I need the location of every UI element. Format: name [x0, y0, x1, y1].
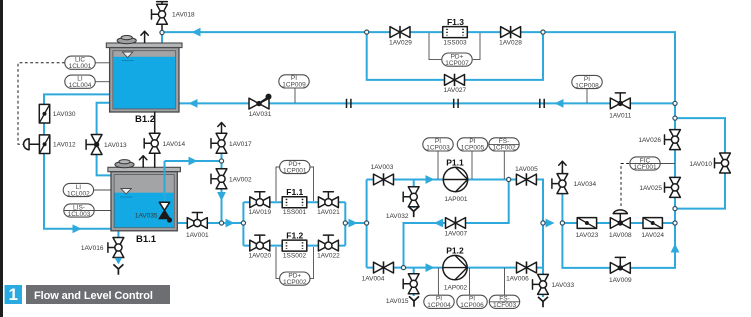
- node junction (562.4,223): [560, 221, 564, 225]
- node junction (345.3,223): [343, 221, 347, 225]
- valve 1AV023: [577, 218, 596, 229]
- svg-text:1AV030: 1AV030: [53, 111, 76, 118]
- svg-text:1AP002: 1AP002: [444, 284, 468, 291]
- wire F1.2 branch row: [243, 245, 345, 247]
- svg-text:1CL004: 1CL004: [69, 82, 92, 89]
- pump P1.2 (1AP002): [443, 255, 467, 279]
- wire F1.1 branch row: [243, 201, 345, 203]
- instrument LI 1CL004 (LI): [65, 75, 95, 89]
- drain Y below 1AV032: [409, 207, 419, 217]
- svg-text:1CL002: 1CL002: [67, 190, 90, 197]
- valve 1AV020: [250, 235, 270, 251]
- valve 1AV026: [665, 130, 681, 150]
- valve 1AV019: [250, 192, 270, 208]
- node junction (675,103.4): [673, 101, 677, 105]
- instrument PI 1CP009 (PI): [279, 75, 309, 89]
- svg-text:1CP001: 1CP001: [283, 167, 307, 174]
- wire stub B1.1 bottom to 1AV016: [117, 230, 119, 239]
- wire 1AV034 column down and 1AV009 return: [562, 194, 675, 268]
- wire stub node to B1.2 lid: [161, 33, 163, 45]
- valve 1AV029: [390, 26, 410, 38]
- flow arrow at (221.5,199.5): [217, 192, 226, 201]
- wire branch split verticals: [242, 202, 244, 245]
- valve 1AV015: [403, 274, 419, 294]
- svg-text:1AV024: 1AV024: [641, 232, 664, 239]
- valve 1AV008 with diaphragm actuator: [610, 210, 630, 229]
- valve 1AV035 (inlet valve inside tank B1.1): [159, 202, 172, 222]
- leader LI 1CL004 to tank wall: [95, 81, 111, 83]
- flow arrow at (433,267.6): [426, 263, 435, 272]
- svg-text:F1.3: F1.3: [447, 17, 464, 27]
- leader PI 1CP008 to pipe: [586, 89, 588, 103]
- svg-text:1CP007: 1CP007: [445, 60, 469, 67]
- svg-text:Flow and Level Control: Flow and Level Control: [34, 290, 153, 302]
- valve 1AV025: [665, 177, 681, 197]
- svg-text:1AV016: 1AV016: [81, 245, 104, 252]
- instrument LIC 1CL001 (LIC): [65, 56, 95, 70]
- instrument PI 1CP004 (PI): [424, 295, 454, 309]
- svg-text:1AV017: 1AV017: [229, 141, 252, 148]
- vent arrow on B1.1 lid: [140, 156, 147, 167]
- leader PI 1CP003: [437, 151, 439, 179]
- instrument PI 1CP008 (PI): [572, 75, 602, 89]
- svg-text:1AV019: 1AV019: [248, 209, 271, 216]
- svg-text:P1.2: P1.2: [446, 245, 464, 255]
- leader FS- 1CF003: [504, 268, 506, 295]
- leader FIC 1CF001 line to riser: [630, 163, 675, 165]
- svg-text:1AV020: 1AV020: [248, 253, 271, 260]
- instrument PD+ 1CP002 (PD+): [280, 272, 310, 286]
- valve 1AV003: [374, 173, 394, 185]
- pipe break symbol at x=348.7: [347, 99, 351, 108]
- wire main control row 1AV023/1AV008/1AV024: [562, 222, 675, 224]
- flow sensor 1SS002: [282, 240, 307, 251]
- node junction (366.6,223): [365, 221, 369, 225]
- svg-text:1AV029: 1AV029: [389, 39, 412, 46]
- svg-text:1AV032: 1AV032: [386, 213, 409, 220]
- flow arrow at (190,103.4): [189, 99, 198, 108]
- svg-text:1AV008: 1AV008: [609, 232, 632, 239]
- pipe break symbol at x=542: [540, 99, 544, 108]
- svg-text:1AV014: 1AV014: [163, 141, 186, 148]
- valve 1AV002: [211, 169, 227, 189]
- flow arrow at (80,228.8): [73, 224, 82, 233]
- drain Y below 1AV016: [113, 264, 123, 274]
- leader PI 1CP005: [471, 151, 473, 179]
- svg-text:1CF002: 1CF002: [492, 145, 516, 152]
- valve 1AV006: [517, 261, 537, 273]
- leader bracket PD+ 1CP002 around 1SS002: [276, 247, 314, 279]
- vent arrow on B1.2 lid: [141, 31, 148, 42]
- flow arrow at (435.5,223): [434, 219, 443, 228]
- left page edge strip: [0, 0, 3, 317]
- svg-text:1CF003: 1CF003: [493, 302, 517, 309]
- pipe break symbol at x=455.9: [454, 99, 458, 108]
- svg-text:1CL001: 1CL001: [69, 63, 92, 70]
- svg-text:1AV022: 1AV022: [317, 253, 340, 260]
- svg-text:B1.2: B1.2: [135, 114, 155, 125]
- flow arrow at (193,32.1): [192, 28, 201, 37]
- svg-text:1SS003: 1SS003: [443, 39, 467, 46]
- valve 1AV013: [86, 135, 102, 155]
- instrument PI 1CP006 (PI): [457, 295, 487, 309]
- svg-text:1CP008: 1CP008: [575, 82, 599, 89]
- dashed signal FIC 1CF001 to 1AV008 actuator: [621, 164, 629, 208]
- wire branch merge to distribution node: [345, 222, 366, 224]
- wire P1.2 suction/discharge row: [367, 267, 543, 269]
- flow arrow at (675,245): [671, 244, 680, 253]
- leader PI 1CP004: [437, 268, 439, 295]
- svg-text:1: 1: [8, 285, 17, 304]
- valve 1AV027: [445, 74, 465, 86]
- leader LIC 1CL001 to tank wall: [95, 62, 111, 64]
- valve 1AV010: [715, 153, 731, 173]
- node junction (675,208.6): [673, 207, 677, 211]
- node junction (366.7,32.1): [365, 30, 369, 34]
- banner title bar: [26, 285, 170, 304]
- svg-text:1AV005: 1AV005: [515, 166, 538, 173]
- svg-text:1AV031: 1AV031: [249, 111, 272, 118]
- svg-text:1AV001: 1AV001: [186, 232, 209, 239]
- valve 1AV009: [610, 257, 630, 273]
- valve 1AV028: [501, 26, 521, 38]
- svg-text:1AV006: 1AV006: [506, 276, 529, 283]
- svg-text:1AV009: 1AV009: [609, 277, 632, 284]
- wire stub to 1AV032 drain: [413, 180, 415, 189]
- svg-text:1CF001: 1CF001: [633, 164, 657, 171]
- instrument FS- 1CF002 (FS-): [489, 138, 519, 152]
- wire B1.2 outlet through 1AV013 into B1.1: [97, 103, 112, 176]
- svg-text:1AV007: 1AV007: [444, 231, 467, 238]
- node junction (162,32.5): [160, 30, 164, 34]
- flow arrow at (356,223): [349, 219, 358, 228]
- wire top return pipe to B1.2 lid node: [162, 32, 675, 223]
- svg-text:1AV003: 1AV003: [371, 164, 394, 171]
- valve 1AV012 with manual actuator: [24, 135, 50, 154]
- svg-text:1AV034: 1AV034: [574, 181, 597, 188]
- valve 1AV014 with stems: [154, 112, 156, 167]
- valve 1AV031 with lever knob: [249, 94, 272, 109]
- banner number box: [5, 285, 23, 304]
- wire second return pipe y=103 into B1.2: [176, 102, 675, 104]
- valve 1AV017: [211, 133, 227, 153]
- drain Y below 1AV033: [538, 297, 548, 307]
- valve 1AV030: [39, 104, 49, 123]
- node junction (221.5,161): [219, 159, 223, 163]
- svg-text:1SS001: 1SS001: [283, 209, 307, 216]
- node junction (221.5,223): [219, 221, 223, 225]
- instrument LI 1CL002 (LI): [63, 183, 93, 197]
- node junction (403.5,267.6): [401, 266, 405, 270]
- wire fill pipe into B1.1 through lid to 1AV035: [165, 161, 222, 203]
- flow sensor 1SS003: [443, 27, 468, 38]
- svg-text:P1.1: P1.1: [446, 157, 464, 167]
- valve 1AV004: [374, 261, 394, 273]
- svg-text:1AV025: 1AV025: [639, 185, 662, 192]
- node junction (543,223): [541, 221, 545, 225]
- instrument PD+ 1CP007 (PD+): [442, 53, 472, 67]
- wire B1.2 outlet through 1AV030/1AV012 into B1.1: [44, 94, 112, 228]
- svg-text:1AV015: 1AV015: [386, 298, 409, 305]
- flow arrow at (553,223): [546, 219, 555, 228]
- instrument PI 1CP003 (PI): [423, 138, 453, 152]
- svg-text:1AV002: 1AV002: [229, 176, 252, 183]
- drain Y below 1AV015: [409, 296, 419, 306]
- wire P1.1 suction/discharge row: [367, 180, 543, 224]
- node junction (675,118.1): [673, 116, 677, 120]
- svg-text:1AV033: 1AV033: [552, 282, 575, 289]
- instrument FS- 1CF003 (FS-): [489, 295, 519, 309]
- valve 1AV001: [187, 213, 207, 229]
- valve 1AV021: [318, 192, 338, 208]
- svg-text:1CP004: 1CP004: [427, 302, 451, 309]
- valve 1AV034: [552, 174, 568, 194]
- svg-text:1AV004: 1AV004: [362, 275, 385, 282]
- flow arrow at (233,223): [226, 219, 235, 228]
- instrument FIC 1CF001 (FIC): [630, 157, 660, 171]
- svg-text:1AV013: 1AV013: [104, 142, 127, 149]
- tank B1.2: [106, 36, 182, 113]
- svg-text:1AV027: 1AV027: [443, 87, 466, 94]
- leader LI 1CL002 to tank wall: [93, 189, 112, 191]
- leader PI 1CP006: [469, 268, 471, 295]
- flow sensor 1SS001: [282, 197, 307, 208]
- node junction (508.7,179.5): [507, 177, 511, 181]
- valve 1AV024: [643, 218, 662, 229]
- valve 1AV005: [516, 173, 536, 185]
- svg-text:F1.2: F1.2: [286, 230, 303, 240]
- svg-text:1CL003: 1CL003: [68, 211, 91, 218]
- svg-text:1AV023: 1AV023: [576, 232, 599, 239]
- flow arrow at (196,161): [189, 157, 198, 166]
- instrument LIS- 1CL003 (LIS-): [64, 204, 94, 218]
- wire B1.1 outlet row through 1AV001: [176, 222, 243, 224]
- instrument PI 1CP005 (PI): [457, 138, 487, 152]
- instrument PD+ 1CP001 (PD+): [280, 160, 310, 174]
- svg-text:1CP003: 1CP003: [426, 145, 450, 152]
- valve 1AV034 with vent: [561, 170, 563, 173]
- svg-text:B1.1: B1.1: [136, 234, 157, 245]
- flow arrow below 1AV016: [115, 258, 123, 265]
- leader bracket PD+ 1CP001 around 1SS001: [276, 167, 314, 201]
- valve 1AV032: [403, 187, 419, 207]
- valve 1AV011: [610, 93, 630, 109]
- svg-text:1AV021: 1AV021: [317, 209, 340, 216]
- svg-text:1AV011: 1AV011: [609, 112, 632, 119]
- node junction (243.4,223): [241, 221, 245, 225]
- svg-text:1CP006: 1CP006: [460, 302, 484, 309]
- svg-text:1AV012: 1AV012: [53, 142, 76, 149]
- svg-text:1AV028: 1AV028: [499, 39, 522, 46]
- valve 1AV018 with end cap: [157, 2, 168, 31]
- svg-text:1AV018: 1AV018: [172, 12, 195, 19]
- wire stub to 1AV015 drain: [413, 268, 415, 276]
- svg-text:1CP009: 1CP009: [282, 82, 306, 89]
- leader LIS- 1CL003 to tank wall: [94, 210, 112, 212]
- leader FS- 1CF002: [503, 151, 505, 179]
- leader bracket PD+ 1CP007 around 1SS003: [429, 33, 480, 60]
- tank B1.1: [108, 160, 180, 231]
- svg-text:1AV035: 1AV035: [135, 213, 158, 220]
- dashed signal LIC 1CL001 to 1AV012 actuator: [18, 63, 65, 144]
- svg-text:1CP002: 1CP002: [283, 279, 307, 286]
- svg-text:1AV010: 1AV010: [689, 161, 712, 168]
- pump P1.1 (1AP001): [443, 167, 467, 191]
- wire 1AV007 bypass between pump lines: [404, 180, 509, 268]
- wire 1AV017/1AV002 column: [221, 152, 223, 223]
- svg-text:1SS002: 1SS002: [283, 253, 307, 260]
- wire F1.3 bypass loop through 1AV027: [367, 32, 543, 80]
- valve 1AV022: [318, 235, 338, 251]
- valve 1AV017 with vent: [218, 123, 225, 134]
- wire riser main node down to 1AV033 drain: [542, 223, 544, 296]
- svg-text:1AP001: 1AP001: [444, 196, 468, 203]
- leader PI 1CP009 to pipe: [294, 88, 296, 103]
- svg-text:F1.1: F1.1: [286, 187, 303, 197]
- svg-text:1CP005: 1CP005: [461, 145, 485, 152]
- wire stub below 1AV033: [542, 294, 544, 297]
- valve 1AV007: [446, 217, 466, 229]
- node junction (675,223): [673, 221, 677, 225]
- svg-text:1AV026: 1AV026: [638, 137, 661, 144]
- valve 1AV016: [108, 238, 124, 258]
- wire right bypass loop through 1AV010: [675, 118, 725, 209]
- flow arrow at (556,103.4): [555, 99, 564, 108]
- flow arrow at (433,179.5): [426, 175, 435, 184]
- valve 1AV033: [533, 274, 549, 294]
- node junction (543,32.1): [541, 30, 545, 34]
